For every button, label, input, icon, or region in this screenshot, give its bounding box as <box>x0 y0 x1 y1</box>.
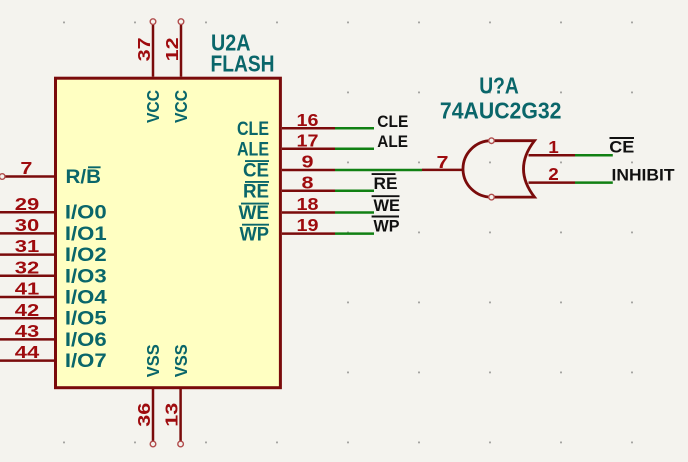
pin 44 wire (I/O7) <box>0 359 54 362</box>
svg-text:I/O5: I/O5 <box>65 308 107 330</box>
svg-text:R/B: R/B <box>66 166 102 188</box>
gate pin 7 wire (input left) <box>422 169 463 172</box>
gate top junction circle <box>489 138 495 144</box>
svg-text:U?A: U?A <box>479 72 519 98</box>
svg-text:8: 8 <box>302 172 314 192</box>
pin 42 wire (I/O5) <box>0 317 54 320</box>
svg-text:WE: WE <box>374 196 401 215</box>
pin 32 wire (I/O3) <box>0 275 54 278</box>
wire CLE net <box>335 127 374 130</box>
svg-text:I/O6: I/O6 <box>65 329 107 351</box>
net label RE with overline <box>372 174 398 193</box>
pin 17 wire (ALE) <box>282 147 335 150</box>
gate bottom junction circle <box>489 194 495 200</box>
svg-text:CLE: CLE <box>377 112 408 131</box>
pin 7 wire (R/B) <box>5 175 54 178</box>
pin 16 wire (CLE) <box>282 127 335 130</box>
svg-text:16: 16 <box>297 110 319 130</box>
pin 30 wire (I/O1) <box>0 232 54 235</box>
pin 37 wire (VCC top) <box>152 24 155 76</box>
svg-text:36: 36 <box>134 402 154 426</box>
gate pin 1 wire (right) <box>529 154 576 157</box>
svg-text:VSS: VSS <box>143 344 163 377</box>
svg-text:WE: WE <box>239 202 270 224</box>
gate U?A body (OR gate mirrored) <box>463 141 535 197</box>
wire WE net <box>335 211 374 214</box>
svg-text:19: 19 <box>297 215 319 235</box>
pin name WE with overline <box>239 202 270 224</box>
pin 36 wire (VSS bottom) <box>152 388 155 441</box>
svg-text:18: 18 <box>297 194 319 214</box>
svg-text:7: 7 <box>20 158 32 178</box>
net label CE with overline <box>609 137 634 156</box>
svg-text:74AUC2G32: 74AUC2G32 <box>440 98 562 124</box>
pin 31 wire (I/O2) <box>0 253 54 256</box>
svg-text:I/O7: I/O7 <box>65 350 107 372</box>
pin name R/B with overline on B <box>66 166 102 188</box>
gate pin 2 wire (right) <box>529 181 576 184</box>
svg-text:FLASH: FLASH <box>211 51 275 77</box>
svg-text:17: 17 <box>297 130 319 150</box>
svg-text:I/O4: I/O4 <box>65 287 107 309</box>
svg-text:43: 43 <box>15 321 40 341</box>
svg-text:INHIBIT: INHIBIT <box>612 165 676 184</box>
svg-text:7: 7 <box>437 152 449 172</box>
svg-text:I/O0: I/O0 <box>65 202 107 224</box>
pin 43 wire (I/O6) <box>0 338 54 341</box>
pin 19 wire (WP) <box>282 232 335 235</box>
svg-text:ALE: ALE <box>237 138 269 160</box>
pin 13 open end circle <box>178 441 184 447</box>
svg-text:VCC: VCC <box>143 90 163 123</box>
svg-text:CE: CE <box>243 160 269 182</box>
pin 13 wire (VSS bottom) <box>179 388 182 441</box>
pin 29 wire (I/O0) <box>0 211 54 214</box>
svg-text:WP: WP <box>240 223 270 245</box>
svg-text:I/O2: I/O2 <box>65 244 107 266</box>
wire CE net to gate <box>335 169 422 172</box>
svg-text:WP: WP <box>374 217 400 236</box>
net label WP with overline <box>372 217 400 236</box>
wire CE output net <box>575 154 613 157</box>
svg-text:9: 9 <box>302 152 314 172</box>
svg-text:1: 1 <box>548 137 559 157</box>
pin 41 wire (I/O4) <box>0 296 54 299</box>
svg-text:CE: CE <box>609 137 634 156</box>
svg-text:42: 42 <box>15 300 40 320</box>
pin name RE with overline <box>243 181 269 203</box>
wire WP net <box>335 232 374 235</box>
pin 18 wire (WE) <box>282 211 335 214</box>
pin 37 open end circle <box>150 19 156 25</box>
svg-text:I/O1: I/O1 <box>65 223 107 245</box>
svg-text:RE: RE <box>374 174 398 193</box>
pin 7 open end circle <box>0 174 5 180</box>
svg-text:VSS: VSS <box>171 344 191 377</box>
wire ALE net <box>335 147 374 150</box>
svg-text:37: 37 <box>134 37 154 61</box>
svg-text:2: 2 <box>548 164 559 184</box>
svg-text:CLE: CLE <box>237 118 269 140</box>
pin 12 wire (VCC top) <box>180 24 183 76</box>
svg-text:30: 30 <box>15 215 40 235</box>
pin 36 open end circle <box>150 441 156 447</box>
svg-text:I/O3: I/O3 <box>65 265 107 287</box>
pin 9 wire (CE) <box>282 169 335 172</box>
net label WE with overline <box>372 196 400 215</box>
wire INHIBIT net <box>575 181 613 184</box>
svg-text:31: 31 <box>15 236 40 256</box>
svg-text:12: 12 <box>162 37 182 61</box>
svg-text:29: 29 <box>15 194 40 214</box>
pin 8 wire (RE) <box>282 190 335 193</box>
svg-text:VCC: VCC <box>171 90 191 123</box>
pin name WP with overline <box>240 223 270 245</box>
svg-text:RE: RE <box>243 181 269 203</box>
svg-text:ALE: ALE <box>377 132 408 151</box>
wire RE net <box>335 190 374 193</box>
svg-text:44: 44 <box>15 342 40 362</box>
svg-text:41: 41 <box>15 279 40 299</box>
flash IC U2A body <box>56 78 281 388</box>
svg-text:32: 32 <box>15 257 40 277</box>
pin name CE with overline <box>243 160 269 182</box>
pin 12 open end circle <box>178 19 184 25</box>
svg-text:13: 13 <box>162 402 182 426</box>
